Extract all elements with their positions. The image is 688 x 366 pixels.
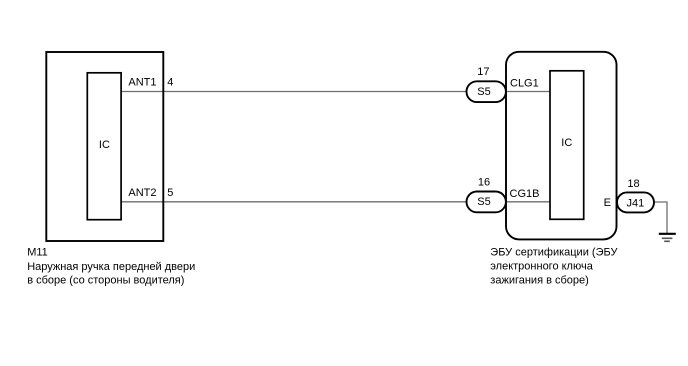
svg-text:16: 16: [478, 176, 490, 188]
svg-text:CG1B: CG1B: [510, 188, 540, 200]
svg-text:S5: S5: [477, 86, 490, 98]
ground: [659, 233, 676, 235]
wire E to ground: [616, 202, 667, 233]
IC block inside M11: [87, 73, 121, 220]
svg-text:ЭБУ сертификации (ЭБУ: ЭБУ сертификации (ЭБУ: [490, 247, 618, 259]
svg-text:электронного ключа: электронного ключа: [490, 261, 593, 273]
wire ANT2 to CG1B: [121, 201, 550, 203]
svg-text:CLG1: CLG1: [510, 78, 539, 90]
ECU rounded box: [506, 52, 617, 240]
svg-text:M11: M11: [27, 247, 48, 259]
wire ANT1 to CLG1: [121, 91, 550, 93]
connector S5 (pin 16): [467, 192, 506, 213]
svg-text:в сборе (со стороны водителя): в сборе (со стороны водителя): [27, 275, 184, 287]
svg-text:зажигания в сборе): зажигания в сборе): [490, 275, 589, 287]
svg-text:S5: S5: [477, 196, 490, 208]
svg-text:4: 4: [167, 77, 173, 89]
svg-text:Наружная ручка передней двери: Наружная ручка передней двери: [27, 261, 195, 273]
svg-text:5: 5: [167, 187, 173, 199]
svg-text:J41: J41: [627, 197, 645, 209]
svg-text:ANT1: ANT1: [128, 77, 156, 89]
svg-text:E: E: [604, 197, 611, 209]
svg-text:18: 18: [627, 178, 639, 190]
connector J41 (pin 18): [617, 192, 654, 212]
connector S5 (pin 17): [467, 81, 506, 102]
svg-text:IC: IC: [561, 137, 572, 149]
svg-text:ANT2: ANT2: [128, 187, 156, 199]
svg-text:IC: IC: [99, 139, 110, 151]
component M11 outer box: [46, 52, 163, 241]
IC block inside ECU: [550, 71, 584, 220]
svg-text:17: 17: [477, 66, 489, 78]
